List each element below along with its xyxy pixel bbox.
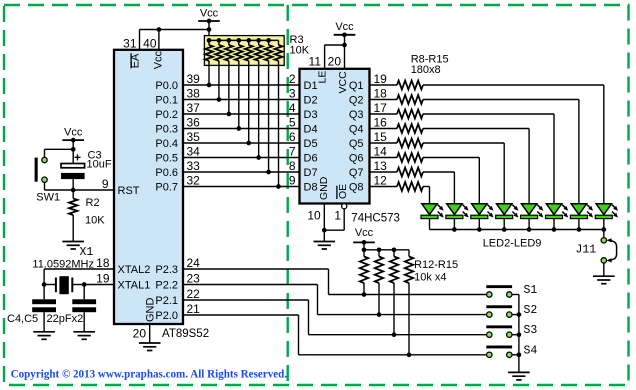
resistor R8 180 ohm + wire Q1 to LED bbox=[370, 81, 604, 204]
resistor R3 element 5 bbox=[245, 38, 253, 145]
svg-text:Vcc: Vcc bbox=[200, 8, 219, 20]
switch S1 bbox=[486, 285, 512, 297]
node junction GND/OE bbox=[322, 228, 327, 233]
svg-text:12: 12 bbox=[374, 174, 388, 188]
node junction bracket/Vcc stem bbox=[207, 27, 212, 32]
svg-text:5: 5 bbox=[289, 116, 296, 130]
svg-text:D5: D5 bbox=[304, 138, 318, 150]
resistor R3 element 4 bbox=[235, 38, 243, 131]
wire VCC pin 20 up bbox=[344, 35, 346, 69]
svg-text:D2: D2 bbox=[304, 95, 318, 107]
wire bracket horizontal to Vcc stem bbox=[140, 29, 210, 31]
svg-text:2: 2 bbox=[289, 72, 296, 86]
svg-text:4: 4 bbox=[289, 101, 296, 115]
svg-text:Q8: Q8 bbox=[349, 182, 364, 194]
crystal X1 bbox=[44, 276, 84, 294]
svg-text:16: 16 bbox=[374, 116, 388, 130]
ground (latch pin 10) bbox=[314, 242, 336, 250]
node junction VCC/LE bracket bbox=[342, 43, 347, 48]
resistor R11 180 ohm + wire Q4 to LED bbox=[370, 124, 530, 204]
svg-text:21: 21 bbox=[187, 302, 201, 316]
svg-text:20: 20 bbox=[328, 55, 342, 69]
svg-text:D7: D7 bbox=[304, 167, 318, 179]
wire P0.0 to D1 bbox=[183, 84, 300, 86]
svg-text:VCC: VCC bbox=[337, 71, 349, 94]
svg-text:180x8: 180x8 bbox=[411, 64, 441, 76]
LED7 bbox=[546, 204, 569, 230]
svg-text:20: 20 bbox=[133, 327, 147, 341]
node junction XTAL2/C4 bbox=[42, 282, 47, 287]
wire P0.6 to D7 bbox=[183, 171, 300, 173]
svg-text:P0.1: P0.1 bbox=[155, 95, 178, 107]
LED5 bbox=[496, 204, 519, 230]
svg-text:D1: D1 bbox=[304, 80, 318, 92]
LED2 bbox=[421, 204, 444, 230]
svg-text:D8: D8 bbox=[304, 182, 318, 194]
wire Vcc stem to RST junction bbox=[72, 140, 74, 163]
svg-text:Q6: Q6 bbox=[349, 153, 364, 165]
ground (MCU pin 20) bbox=[139, 343, 161, 351]
svg-text:P2.3: P2.3 bbox=[155, 264, 178, 276]
LED9 bbox=[595, 204, 618, 230]
wire J11 to ground bbox=[603, 263, 605, 276]
wire P0.2 to D3 bbox=[183, 113, 300, 115]
svg-text:13: 13 bbox=[374, 159, 388, 173]
svg-text:35: 35 bbox=[187, 130, 201, 144]
wire bracket horizontal bbox=[325, 44, 345, 46]
svg-text:GND: GND bbox=[318, 176, 330, 200]
wire Vcc stem to pull-up bus bbox=[363, 242, 365, 249]
wire P0.4 to D5 bbox=[183, 142, 300, 144]
svg-text:23: 23 bbox=[187, 272, 201, 286]
inverter bubble OE pin 1 bbox=[342, 204, 347, 209]
resistor R9 180 ohm + wire Q2 to LED bbox=[370, 95, 579, 204]
wire P2.3 to S1 row bbox=[183, 268, 329, 270]
svg-text:Vcc: Vcc bbox=[64, 127, 83, 139]
resistor R14 10k bbox=[390, 247, 398, 337]
svg-text:R2: R2 bbox=[86, 197, 100, 209]
wire S4 to common bbox=[512, 354, 519, 356]
svg-text:Q4: Q4 bbox=[349, 124, 364, 136]
power Vcc symbol (pull-ups) bbox=[353, 227, 375, 245]
svg-text:Q2: Q2 bbox=[349, 95, 364, 107]
resistor R3 element 8 bbox=[275, 40, 283, 188]
node junction switch common bbox=[517, 352, 522, 357]
LED8 bbox=[570, 204, 593, 230]
svg-text:7: 7 bbox=[289, 145, 296, 159]
svg-text:6: 6 bbox=[289, 130, 296, 144]
svg-text:9: 9 bbox=[289, 174, 296, 188]
wire P0.5 to D6 bbox=[183, 157, 300, 159]
ground (J11) bbox=[593, 276, 615, 284]
wire branch to SW1 top bbox=[45, 148, 74, 150]
node junction LED/bus bbox=[601, 227, 606, 232]
svg-text:32: 32 bbox=[187, 174, 201, 188]
svg-text:J11: J11 bbox=[576, 243, 597, 256]
resistor R12 180 ohm + wire Q5 to LED bbox=[370, 139, 505, 204]
svg-text:S3: S3 bbox=[524, 324, 538, 337]
svg-text:8: 8 bbox=[289, 159, 296, 173]
svg-text:XTAL1: XTAL1 bbox=[118, 280, 151, 292]
capacitor C4 22pF bbox=[32, 285, 56, 332]
svg-text:P2.2: P2.2 bbox=[155, 280, 178, 292]
resistor R3 element 2 bbox=[215, 38, 223, 102]
svg-text:S1: S1 bbox=[524, 284, 538, 297]
svg-text:P0.6: P0.6 bbox=[155, 167, 178, 179]
wire MCU GND pin 20 down bbox=[149, 324, 151, 343]
svg-text:P0.3: P0.3 bbox=[155, 124, 178, 136]
resistor R13 180 ohm + wire Q6 to LED bbox=[370, 153, 480, 204]
svg-text:OE: OE bbox=[337, 184, 349, 199]
capacitor C5 22pF bbox=[72, 285, 96, 332]
switch SW1 (reset button) bbox=[35, 157, 48, 182]
svg-text:9: 9 bbox=[102, 177, 109, 191]
svg-text:P0.5: P0.5 bbox=[155, 153, 178, 165]
svg-text:10K: 10K bbox=[290, 45, 310, 57]
svg-text:C4,C5: C4,C5 bbox=[7, 313, 38, 325]
svg-text:SW1: SW1 bbox=[36, 192, 60, 204]
svg-text:P2.1: P2.1 bbox=[155, 295, 178, 307]
wire P0.1 to D2 bbox=[183, 99, 300, 101]
svg-text:+: + bbox=[74, 151, 81, 165]
svg-text:19: 19 bbox=[96, 272, 110, 286]
resistor R3 element 1 bbox=[205, 38, 213, 87]
svg-text:Q7: Q7 bbox=[349, 167, 364, 179]
svg-text:S4: S4 bbox=[524, 344, 538, 357]
svg-text:10uF: 10uF bbox=[87, 158, 112, 170]
LED3 bbox=[446, 204, 469, 230]
ground (C4) bbox=[33, 332, 55, 340]
svg-text:Vcc: Vcc bbox=[335, 21, 354, 33]
svg-text:Q5: Q5 bbox=[349, 138, 364, 150]
resistor R14 180 ohm + wire Q7 to LED bbox=[370, 168, 455, 204]
wire XTAL1 bbox=[84, 284, 114, 286]
wire EA pin 31 to bracket bbox=[139, 30, 141, 50]
svg-text:10: 10 bbox=[307, 209, 321, 223]
svg-text:XTAL2: XTAL2 bbox=[118, 264, 151, 276]
wire P2.1 to S3 row bbox=[183, 299, 309, 301]
wire LED cathode bus bbox=[430, 229, 604, 231]
switch S4 bbox=[486, 346, 512, 358]
node junction pin40/bracket bbox=[157, 27, 162, 32]
node junction LED/bus bbox=[552, 227, 557, 232]
svg-text:3: 3 bbox=[289, 87, 296, 101]
wire C3 bottom to RST line bbox=[72, 179, 74, 190]
capacitor C3 10uF (electrolytic) bbox=[61, 164, 85, 180]
wire P2.0 to S4 row bbox=[183, 314, 299, 316]
svg-text:74HC573: 74HC573 bbox=[351, 213, 400, 225]
svg-text:17: 17 bbox=[374, 101, 388, 115]
wire P0.3 to D4 bbox=[183, 128, 300, 130]
svg-text:22: 22 bbox=[187, 287, 201, 301]
LED4 bbox=[471, 204, 494, 230]
node junction XTAL1/C5 bbox=[82, 282, 87, 287]
svg-text:36: 36 bbox=[187, 116, 201, 130]
resistor R15 180 ohm + wire Q8 to LED bbox=[370, 182, 430, 204]
resistor R3 element 7 bbox=[265, 38, 273, 174]
svg-text:D3: D3 bbox=[304, 109, 318, 121]
node junction LED/bus bbox=[502, 227, 507, 232]
resistor network R3 10K (yellow module) bbox=[204, 36, 284, 66]
svg-text:P0.4: P0.4 bbox=[155, 138, 178, 150]
resistor R3 element 3 bbox=[225, 38, 233, 116]
svg-text:40: 40 bbox=[143, 37, 157, 51]
svg-text:LED2-LED9: LED2-LED9 bbox=[483, 238, 542, 250]
svg-text:22pFx2: 22pFx2 bbox=[47, 313, 84, 325]
node junction LED/bus bbox=[452, 227, 457, 232]
svg-text:S2: S2 bbox=[524, 304, 538, 317]
svg-text:AT89S52: AT89S52 bbox=[162, 328, 209, 340]
svg-text:39: 39 bbox=[187, 72, 201, 86]
node junction Vcc/SW1 branch bbox=[71, 147, 76, 152]
svg-text:D6: D6 bbox=[304, 153, 318, 165]
svg-text:Q1: Q1 bbox=[349, 80, 364, 92]
wire bus down to J11 bbox=[603, 230, 605, 238]
wire OE pin 1 to GND junction bbox=[343, 209, 345, 230]
svg-text:Vcc: Vcc bbox=[153, 50, 165, 69]
svg-text:X1: X1 bbox=[80, 246, 94, 259]
power Vcc symbol (MCU top) bbox=[198, 8, 220, 24]
node junction switch common bbox=[517, 332, 522, 337]
power Vcc symbol (latch) bbox=[334, 21, 356, 37]
svg-text:18: 18 bbox=[374, 87, 388, 101]
wire S3 to common bbox=[512, 334, 519, 336]
wire S1 to common bbox=[512, 294, 519, 296]
R3 bus wire bbox=[209, 39, 279, 41]
svg-text:10k x4: 10k x4 bbox=[414, 272, 446, 284]
svg-text:19: 19 bbox=[374, 72, 388, 86]
wire Vcc stem down into R3 network bbox=[208, 21, 210, 40]
ground (switch common) bbox=[508, 372, 530, 380]
ground (R2) bbox=[62, 242, 84, 250]
svg-text:34: 34 bbox=[187, 145, 201, 159]
resistor R15 10k bbox=[405, 250, 413, 357]
svg-text:GND: GND bbox=[144, 298, 156, 323]
svg-text:Vcc: Vcc bbox=[355, 227, 374, 239]
svg-text:38: 38 bbox=[187, 87, 201, 101]
wire LE pin 11 up to bracket bbox=[324, 45, 326, 69]
resistor R10 180 ohm + wire Q3 to LED bbox=[370, 110, 555, 204]
svg-text:33: 33 bbox=[187, 159, 201, 173]
svg-text:37: 37 bbox=[187, 101, 201, 115]
wire switch common vertical bbox=[518, 295, 520, 373]
switch S2 bbox=[486, 305, 512, 317]
svg-text:15: 15 bbox=[374, 130, 388, 144]
wire Vcc pin 40 to bracket bbox=[158, 30, 160, 50]
resistor R3 element 6 bbox=[255, 38, 263, 160]
svg-text:RST: RST bbox=[118, 185, 140, 197]
svg-text:1: 1 bbox=[334, 209, 341, 223]
latch U2 74HC573 bbox=[300, 69, 370, 204]
svg-text:D4: D4 bbox=[304, 124, 318, 136]
wire P2.2 to S2 row bbox=[183, 284, 318, 286]
MCU U1 AT89S52 bbox=[114, 50, 183, 324]
svg-text:24: 24 bbox=[187, 256, 201, 270]
node junction RST/C3/R2 bbox=[71, 188, 76, 193]
resistor R13 10k bbox=[375, 247, 383, 317]
wire S2 to common bbox=[512, 314, 519, 316]
connector J11 bbox=[601, 238, 617, 263]
svg-text:P2.0: P2.0 bbox=[155, 310, 178, 322]
switch S3 bbox=[486, 325, 512, 337]
svg-text:10K: 10K bbox=[85, 214, 105, 226]
node junction LED/bus bbox=[577, 227, 582, 232]
ground (C5) bbox=[73, 332, 95, 340]
svg-text:Q3: Q3 bbox=[349, 109, 364, 121]
node junction LED/bus bbox=[477, 227, 482, 232]
wire XTAL2 bbox=[44, 268, 114, 270]
LED6 bbox=[521, 204, 544, 230]
svg-text:11: 11 bbox=[309, 55, 322, 69]
wire P0.7 to D8 bbox=[183, 186, 300, 188]
svg-text:LE: LE bbox=[317, 71, 329, 84]
resistor R2 10K bbox=[69, 190, 77, 242]
node junction LED/bus bbox=[527, 227, 532, 232]
svg-text:31: 31 bbox=[123, 37, 137, 51]
resistor R12 10k bbox=[360, 247, 368, 296]
svg-text:P0.2: P0.2 bbox=[155, 109, 178, 121]
svg-text:18: 18 bbox=[96, 256, 110, 270]
svg-text:P0.0: P0.0 bbox=[155, 80, 178, 92]
svg-text:R12-R15: R12-R15 bbox=[414, 259, 458, 271]
wire latch GND pin 10 down bbox=[323, 204, 325, 242]
node junction switch common bbox=[517, 312, 522, 317]
wire SW1 bottom to RST line bbox=[44, 182, 46, 190]
wire pull-up bus bbox=[364, 249, 409, 251]
svg-text:Copyright © 2013 www.praphas.c: Copyright © 2013 www.praphas.com. All Ri… bbox=[11, 369, 288, 381]
svg-text:14: 14 bbox=[374, 145, 388, 159]
power Vcc symbol (RST) bbox=[62, 127, 84, 143]
svg-text:P0.7: P0.7 bbox=[155, 182, 178, 194]
